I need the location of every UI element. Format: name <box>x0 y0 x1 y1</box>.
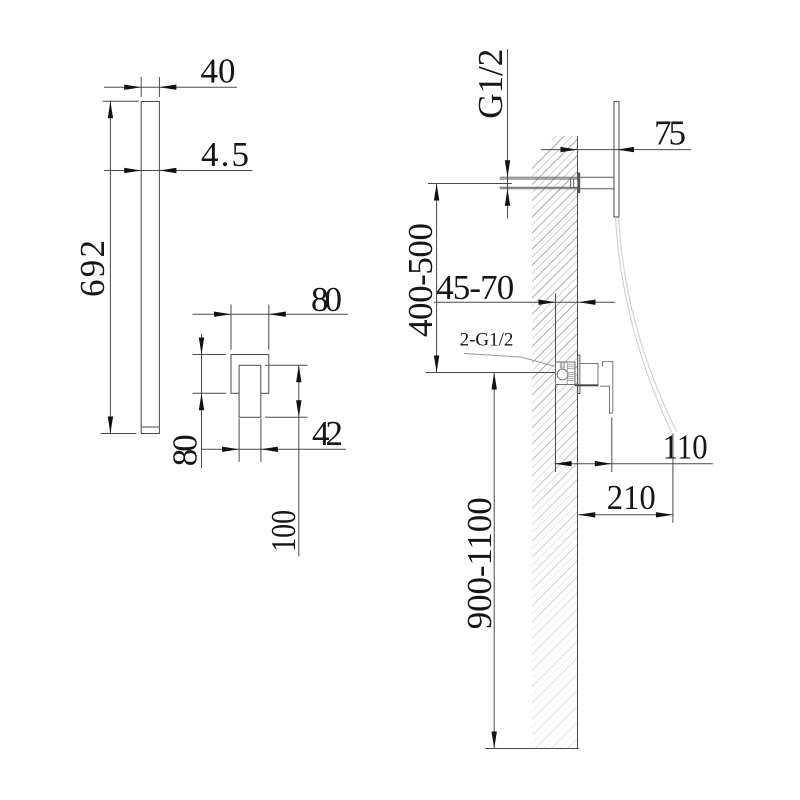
spout pipe wall flange <box>577 173 580 194</box>
mixer valve rough-in box <box>556 362 576 385</box>
dim 75 arrows <box>561 147 578 152</box>
dim 80 vertical arrows <box>199 338 204 355</box>
dim 900-1100 line <box>493 373 495 749</box>
dim 80 horizontal line <box>193 313 349 315</box>
dim 110 arrows <box>555 461 572 466</box>
svg-text:100: 100 <box>264 510 303 552</box>
svg-text:G1/2: G1/2 <box>471 49 510 119</box>
valve centerline tick <box>426 372 556 374</box>
dim 100 ticks <box>265 365 307 417</box>
dim 100 arrows <box>296 365 301 382</box>
dim 100 line <box>298 365 300 556</box>
panel side view bar <box>141 102 159 434</box>
dim 900-1100 arrows <box>492 373 497 390</box>
dim 692 ticks <box>101 101 139 433</box>
svg-text:80: 80 <box>311 280 342 319</box>
dim 40 extension lines <box>141 77 159 97</box>
dim 80 vertical ticks <box>193 355 227 394</box>
svg-text:2-G1/2: 2-G1/2 <box>460 330 514 351</box>
dim 400-500 arrows <box>434 184 439 201</box>
wall hatch <box>530 89 579 794</box>
dim 45-70 line <box>434 301 615 303</box>
valve trim plate side view <box>578 355 580 393</box>
svg-text:210: 210 <box>607 478 656 517</box>
dim 80 horizontal arrows <box>214 312 231 317</box>
dim 210 extension line <box>672 434 674 523</box>
valve body bottom thick line <box>575 384 599 386</box>
dim 4.5 arrows <box>124 168 141 173</box>
leader 2-G1/2 <box>464 354 555 367</box>
pipe fitting <box>571 179 578 188</box>
screws <box>560 363 564 369</box>
supply pipe in wall <box>500 179 571 187</box>
dim 210 line <box>578 514 673 516</box>
dim 40 line <box>104 86 237 88</box>
svg-text:110: 110 <box>663 428 708 467</box>
dim 42 line <box>202 448 347 450</box>
dim 210 arrows <box>578 512 595 517</box>
dim 40 arrows <box>124 85 141 90</box>
thread detail <box>566 362 568 385</box>
pipe centerline tick (400-500 top reference) <box>428 183 512 185</box>
waterfall panel edge view <box>614 102 619 217</box>
svg-text:692: 692 <box>73 240 112 297</box>
dim G1/2 line <box>507 49 509 219</box>
trim plate square front view <box>231 355 269 394</box>
valve handle <box>600 362 613 414</box>
svg-text:75: 75 <box>654 114 686 153</box>
dim 75 line <box>541 149 691 151</box>
dim 4.5 line <box>104 170 253 172</box>
spout pipe <box>580 177 614 189</box>
dim 400-500 line <box>436 184 438 373</box>
dim 45-70 arrows <box>539 300 556 305</box>
svg-text:80: 80 <box>166 434 205 466</box>
svg-text:4.5: 4.5 <box>201 135 249 174</box>
dim 42 extension lines <box>239 418 261 462</box>
G1/2 extension lines (spout pipe OD) <box>500 177 578 189</box>
handle front view <box>239 365 261 417</box>
dim 692 line <box>109 101 111 433</box>
valve body outside wall <box>580 364 598 386</box>
svg-text:40: 40 <box>201 52 236 91</box>
svg-text:45-70: 45-70 <box>436 268 514 307</box>
svg-text:42: 42 <box>312 414 343 453</box>
dim 42 arrows <box>222 447 239 452</box>
cartridge circle <box>557 369 568 380</box>
dim 692 arrows <box>108 101 113 118</box>
wall inner plane line <box>555 294 557 473</box>
dim 110 extension line <box>611 418 613 473</box>
dim 80 horizontal extension lines <box>231 305 269 350</box>
dim G1/2 arrows <box>505 160 510 177</box>
dim 80 vertical line <box>201 334 203 468</box>
floor tick <box>485 748 579 750</box>
wall face line <box>577 136 579 749</box>
svg-text:400-500: 400-500 <box>401 223 440 337</box>
water stream curve <box>616 218 672 432</box>
svg-text:900-1100: 900-1100 <box>460 497 499 629</box>
dim 110 line <box>555 463 713 465</box>
